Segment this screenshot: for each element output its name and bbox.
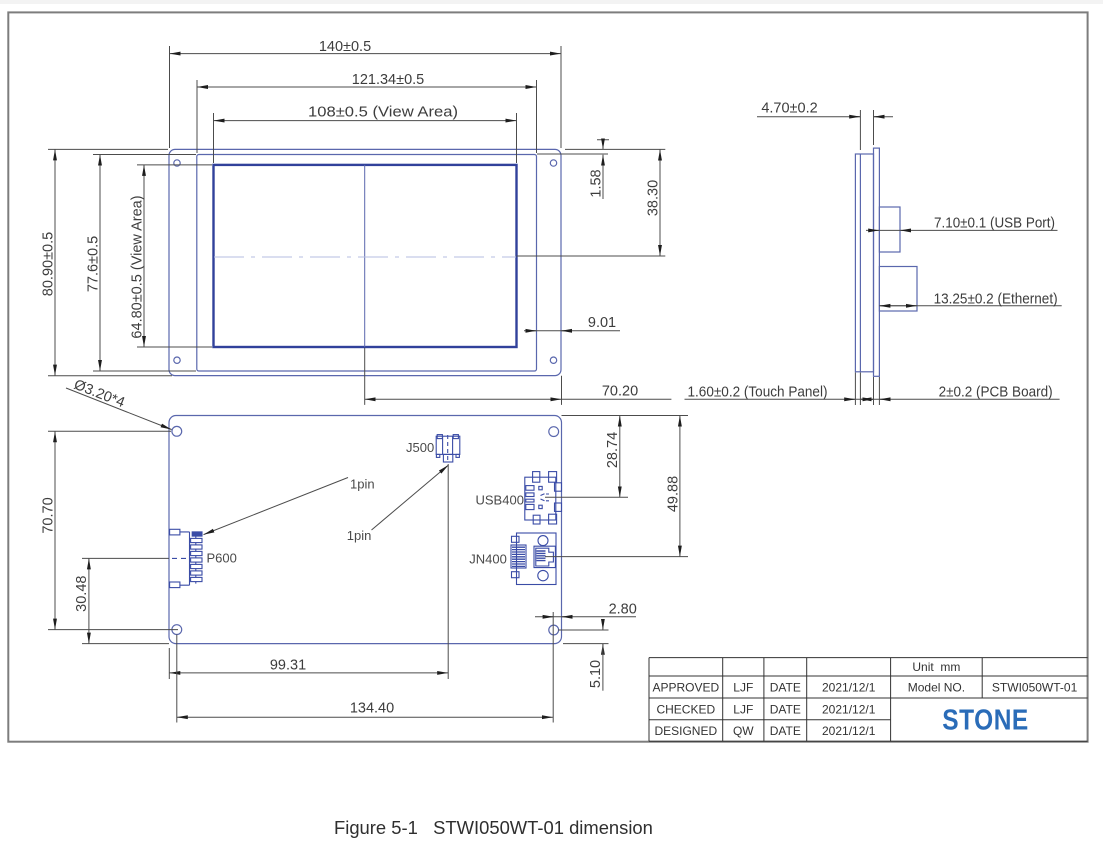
dim 70.70 [54,431,56,629]
leader 1pin to P600 [204,478,349,535]
svg-text:P600: P600 [207,551,237,566]
svg-text:1pin: 1pin [350,476,375,491]
svg-text:2.80: 2.80 [609,601,637,617]
svg-text:9.01: 9.01 [588,315,616,331]
rear view: hole bottom-right [549,625,559,635]
dim 1.58 extension line [537,153,608,155]
dim 49.88 [679,416,681,557]
dim 64.80±0.5 (View Area) [143,165,145,347]
rear view: hole top-left [172,426,182,436]
svg-text:DESIGNED: DESIGNED [654,724,717,738]
leader JN400 centre [545,556,688,558]
svg-text:28.74: 28.74 [605,432,621,468]
svg-text:STONE: STONE [942,703,1028,735]
side view: Ethernet jack protrusion [879,267,917,312]
svg-text:QW: QW [733,724,754,738]
dim 38.30 [659,150,661,257]
svg-text:2021/12/1: 2021/12/1 [822,702,876,716]
dim 2.80 extension lines [558,630,609,644]
front view: horizontal centerline [214,256,516,258]
svg-text:80.90±0.5: 80.90±0.5 [40,232,56,296]
dim 70.20 extension lines [365,348,562,405]
svg-text:5.10: 5.10 [588,660,604,688]
svg-text:7.10±0.1 (USB Port): 7.10±0.1 (USB Port) [934,215,1055,231]
svg-text:DATE: DATE [770,702,801,716]
dim 80.90±0.5 extension lines [48,149,172,375]
dim 30.48 [88,558,90,643]
dim 28.74 reference line [562,415,689,417]
title block table [649,658,1088,742]
dim 1.58 [597,140,609,150]
leader for hole diameter [66,388,172,430]
rear view: hole bottom-left [172,625,182,635]
dim 13.25±0.2 (Ethernet) [879,305,1061,307]
svg-text:USB400: USB400 [476,493,524,508]
dim 134.40 [177,716,553,718]
dim 77.6±0.5 extension lines [93,155,196,372]
dim line for 1.60 and 2 [685,398,1060,400]
svg-text:1.58: 1.58 [589,169,605,197]
side view: LCD module with touch panel [855,154,873,372]
svg-text:STWI050WT-01: STWI050WT-01 [992,681,1078,695]
svg-text:CHECKED: CHECKED [656,702,715,716]
rear view: PCB outline [169,416,562,644]
front view: mounting hole top-left [174,160,180,166]
svg-text:1.60±0.2 (Touch Panel): 1.60±0.2 (Touch Panel) [688,384,828,400]
dim 70.20 [365,398,562,400]
dim 38.30 extension lines [517,149,666,256]
side view: touch panel split line [859,154,861,372]
dim 28.74 [619,416,621,498]
dim 4.70±0.2 [757,116,893,118]
front view: view area rect [214,165,517,347]
svg-text:121.34±0.5: 121.34±0.5 [352,72,424,88]
dim 134.40 extension lines [177,612,553,723]
dim 140±0.5 extension lines [170,46,562,148]
dim 99.31 [169,672,448,674]
svg-text:LJF: LJF [733,681,753,695]
leader 1pin to J500 [372,465,449,530]
front view: outer mounting frame [169,149,561,375]
svg-text:64.80±0.5 (View Area): 64.80±0.5 (View Area) [129,195,145,338]
svg-text:30.48: 30.48 [74,576,90,612]
svg-text:134.40: 134.40 [350,700,394,716]
rear view: hole top-right [549,427,559,437]
svg-text:49.88: 49.88 [665,476,681,512]
dim 121.34±0.5 extension lines [197,80,537,153]
svg-text:4.70±0.2: 4.70±0.2 [761,100,817,116]
dim 9.01 [524,330,620,332]
dim 30.48 extension lines [82,558,169,643]
side view: USB port protrusion [879,207,900,252]
dim 2.80 [535,616,636,618]
connector USB400 [525,472,562,524]
dim 108±0.5 (View Area) [214,120,517,122]
dim 77.6±0.5 [99,155,101,372]
front view: module body rect [197,155,537,372]
svg-text:APPROVED: APPROVED [652,681,719,695]
connector P600 (FPC) [170,529,202,587]
svg-text:DATE: DATE [770,681,801,695]
svg-text:70.70: 70.70 [40,497,56,533]
svg-text:Unit mm: Unit mm [912,660,960,674]
svg-text:Model NO.: Model NO. [908,681,965,695]
dim 7.10±0.1 (USB Port) [866,229,1058,231]
svg-text:108±0.5 (View Area): 108±0.5 (View Area) [308,105,458,121]
dim 70.70 extension lines [48,431,178,629]
svg-text:77.6±0.5: 77.6±0.5 [85,236,101,292]
front view: vertical centerline [364,165,366,347]
svg-text:Figure 5-1 STWI050WT-01 dime: Figure 5-1 STWI050WT-01 dimension [334,817,653,838]
svg-text:JN400: JN400 [469,552,507,567]
svg-text:140±0.5: 140±0.5 [319,39,371,55]
svg-text:99.31: 99.31 [270,658,306,674]
svg-text:70.20: 70.20 [602,384,638,400]
svg-text:J500: J500 [406,440,434,455]
svg-text:2021/12/1: 2021/12/1 [822,724,876,738]
connector J500 [436,435,460,462]
svg-text:1pin: 1pin [347,528,372,543]
svg-text:LJF: LJF [733,702,753,716]
connector JN400 (RJ45) [511,533,556,585]
dim 1.60±0.2 (Touch Panel) and 2±0.2 (PCB Board) extension lines [855,373,879,406]
side view: PCB board [874,148,880,376]
front view: mounting hole bottom-left [174,357,180,363]
dim 108±0.5 (View Area) extension lines [214,113,517,163]
dim 64.80±0.5 (View Area) extension lines [137,165,212,347]
dim 5.10 [602,622,604,630]
svg-text:38.30: 38.30 [646,180,662,216]
leader USB400 centre [545,496,628,498]
svg-text:2021/12/1: 2021/12/1 [822,681,876,695]
dim 121.34±0.5 [197,86,537,88]
dim 99.31 extension lines [169,464,448,679]
dim 80.90±0.5 [54,149,56,375]
dim 4.70±0.2 extension lines [860,110,873,150]
dim 140±0.5 [170,53,562,55]
front view: mounting hole top-right [550,160,556,166]
svg-text:DATE: DATE [770,724,801,738]
svg-text:2±0.2 (PCB Board): 2±0.2 (PCB Board) [939,384,1053,400]
svg-text:13.25±0.2 (Ethernet): 13.25±0.2 (Ethernet) [934,291,1058,307]
front view: mounting hole bottom-right [550,357,556,363]
